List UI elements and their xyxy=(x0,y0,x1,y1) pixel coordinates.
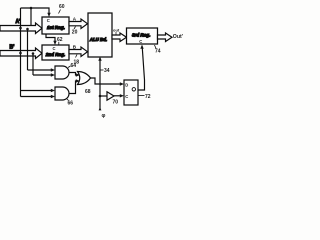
label out xyxy=(113,28,120,35)
svg-text:62: 62 xyxy=(57,37,63,43)
ALU block xyxy=(88,13,112,57)
svg-text:C: C xyxy=(125,94,128,99)
svg-text:C: C xyxy=(53,46,56,51)
bus Out' from register 74 xyxy=(158,33,173,42)
svg-text:2nd Reg.: 2nd Reg. xyxy=(45,52,65,57)
buffer 70 xyxy=(100,92,114,100)
node: junction of rail R3 with bus B' xyxy=(32,52,35,55)
svg-text:out: out xyxy=(113,28,120,33)
bus A' input arrow xyxy=(0,23,42,34)
clock line 34 (phi) up to ALU xyxy=(98,57,101,110)
wire: buffer 70 output to flip-flop 72 C input xyxy=(114,94,124,97)
svg-text:34: 34 xyxy=(104,68,110,74)
node: junction of rail R2 with bus A' xyxy=(26,28,29,31)
wire: rail R2 from bus A' down to AND gate 64 input 1 xyxy=(28,29,56,72)
register 62 (2nd Reg) xyxy=(42,45,69,60)
svg-text:D: D xyxy=(125,82,128,87)
AND gate 64 xyxy=(55,66,69,79)
svg-text:A': A' xyxy=(16,19,21,25)
svg-text:Out': Out' xyxy=(173,34,183,40)
svg-text:1st Reg.: 1st Reg. xyxy=(47,25,65,30)
node: junction on clock line at x=31 xyxy=(30,7,33,10)
svg-text:φ: φ xyxy=(102,113,106,119)
node: junction of phi line and buffer 70 input xyxy=(99,95,102,98)
svg-text:72: 72 xyxy=(145,94,151,100)
reference numeral 64 xyxy=(68,63,76,69)
bus out from ALU to register 74 xyxy=(112,33,127,42)
svg-text:66: 66 xyxy=(68,101,74,107)
OR gate 68 xyxy=(78,72,91,85)
wire: rail R1 from clock line down to AND gate 66 inputs xyxy=(21,8,56,98)
svg-text:70: 70 xyxy=(113,100,119,106)
node: junction of rail R1 with bus A' xyxy=(19,27,22,30)
wire: clock from register 60 to register 62 C pin xyxy=(46,34,57,45)
node: junction of rail R1 with bus B' xyxy=(19,52,22,55)
svg-text:68: 68 xyxy=(85,89,91,95)
wire: rail R3 from bus B' down to AND gate 64 input 2 xyxy=(33,54,55,77)
svg-text:ALU Bd.: ALU Bd. xyxy=(89,37,107,42)
reference numeral 62 xyxy=(57,37,63,45)
wire: AND 64 output to OR 68 input 1 xyxy=(70,73,81,77)
reference numeral 72 xyxy=(139,94,151,100)
svg-text:3rd Reg.: 3rd Reg. xyxy=(132,33,150,38)
svg-text:74: 74 xyxy=(155,48,161,54)
wire: rail from A' bus up to clock line (x=31) xyxy=(30,8,32,26)
register 60 (1st Reg) xyxy=(42,17,69,34)
wire: flip-flop 72 Q output to register 74 C pin xyxy=(138,45,145,91)
wire: OR 68 output to flip-flop 72 D input xyxy=(91,78,125,86)
svg-text:B: B xyxy=(73,44,77,49)
wire: clock line to register 60 (top horizontal) xyxy=(21,8,51,17)
reference numeral 60 xyxy=(59,4,65,13)
label phi clock source xyxy=(99,107,106,119)
AND gate 66 xyxy=(55,87,69,100)
reference numeral 74 xyxy=(155,45,161,54)
bus B' input arrow xyxy=(0,48,42,59)
bus B (18) from register 62 to ALU xyxy=(69,47,88,57)
svg-text:64: 64 xyxy=(71,63,77,69)
wire: AND 66 output to OR 68 input 2 xyxy=(70,79,81,93)
flip-flop 72 xyxy=(124,80,138,105)
register 74 (3rd Reg) xyxy=(127,28,158,44)
bus A (20) from register 60 to ALU xyxy=(69,19,88,29)
svg-text:B': B' xyxy=(10,45,15,51)
svg-text:A: A xyxy=(73,16,77,21)
svg-text:20: 20 xyxy=(72,30,78,36)
svg-text:C: C xyxy=(47,18,50,23)
reference numeral 66 xyxy=(67,99,73,107)
reference numeral 34 xyxy=(101,68,110,74)
svg-text:60: 60 xyxy=(59,4,65,10)
svg-text:C: C xyxy=(139,39,142,44)
